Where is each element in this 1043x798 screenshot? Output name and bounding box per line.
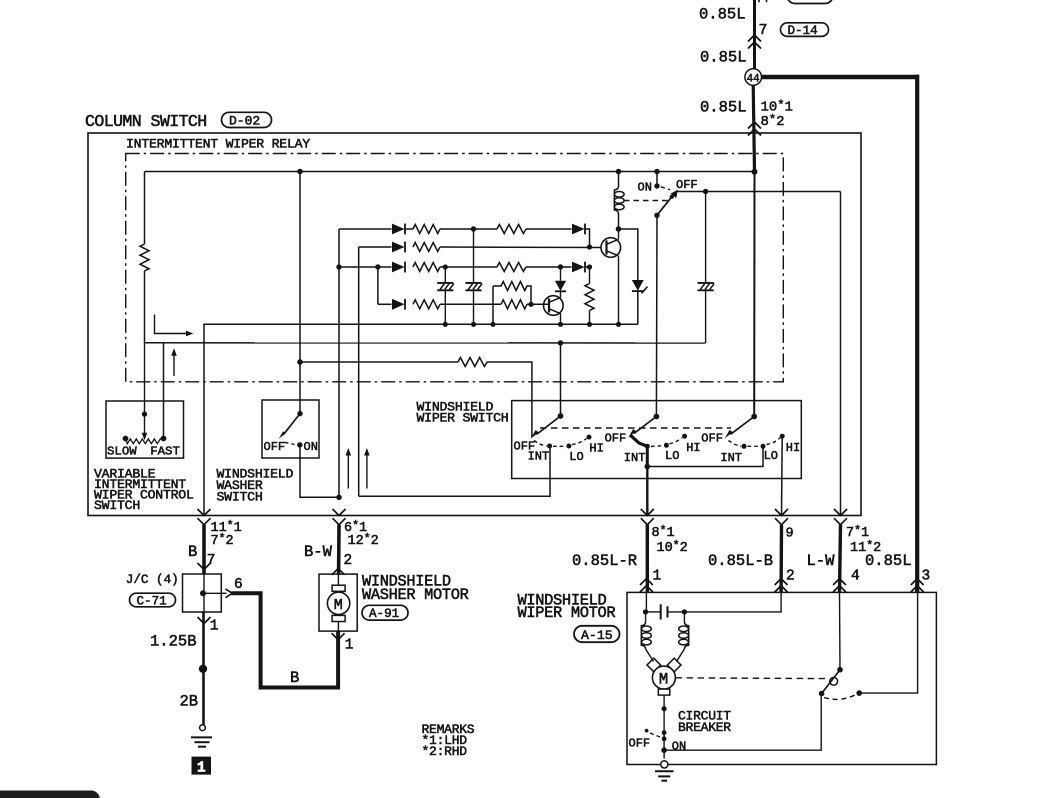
group2 contact HI [682, 434, 687, 439]
resistor (variable timing) vertical [140, 244, 149, 271]
svg-text:7: 7 [759, 22, 768, 39]
wire park to terminal 3 [859, 592, 917, 693]
svg-text:COLUMN SWITCH: COLUMN SWITCH [85, 112, 207, 131]
capacitor C2 [465, 229, 482, 324]
windshield washer switch box [262, 400, 319, 458]
svg-text:OFF: OFF [605, 431, 627, 445]
diode D5 [572, 262, 585, 273]
variable intermittent wiper control switch box [106, 401, 184, 458]
node row2 [587, 244, 592, 249]
wire [440, 228, 497, 230]
svg-text:SWITCH: SWITCH [94, 498, 140, 513]
wire LO3 link [647, 446, 763, 466]
group2 blade [634, 417, 656, 434]
node washer/matrix join [336, 495, 342, 501]
washer contact dashes [285, 442, 295, 444]
matrix feed wire (int branch) [358, 247, 360, 496]
exit chevrons wire B [198, 509, 211, 525]
group2 blade thick link to INT [631, 435, 648, 446]
left leg wire lower [144, 271, 146, 343]
svg-text:D-02: D-02 [229, 114, 260, 129]
svg-text:OFF: OFF [629, 736, 651, 750]
wire [405, 228, 413, 230]
connector stadium (cut off at top edge) [787, 0, 833, 4]
wire OFF down right side [840, 192, 842, 516]
resistor R1b [497, 225, 526, 234]
potentiometer track [126, 439, 164, 444]
wire R5 left leg to bus [492, 286, 494, 324]
relay blade lower node [654, 213, 659, 218]
wire [440, 266, 497, 268]
connector box D-02 [222, 112, 272, 128]
group1 contact INT [547, 444, 552, 449]
park switch blade with cam loop [822, 670, 840, 694]
relay coil [614, 172, 624, 230]
wire B output down [203, 324, 205, 516]
thick wire from node 44 to right [761, 75, 919, 79]
diode matrix row 1 wire [339, 228, 392, 230]
svg-text:8*2: 8*2 [761, 113, 785, 130]
svg-text:0.85L-R: 0.85L-R [572, 552, 637, 570]
svg-text:8*1: 8*1 [652, 525, 675, 541]
ground reference block 1 [192, 757, 212, 777]
label CIRCUIT BREAKER [678, 709, 731, 736]
group2 contact LO [664, 443, 669, 448]
motor M2 [647, 658, 681, 695]
node coil/Q1/zener [616, 226, 622, 232]
washer pivot node [297, 411, 302, 416]
svg-text:A-91: A-91 [369, 607, 399, 621]
connector box C-71 [130, 593, 176, 608]
diode matrix row 2 wire [359, 246, 392, 248]
washer motor box [319, 574, 357, 631]
washer switch blade [284, 414, 301, 435]
svg-text:B: B [188, 543, 197, 561]
coil-blade dashed link [624, 200, 668, 202]
mechanical link dashed [540, 427, 731, 429]
park contact dashes [824, 695, 856, 700]
wire int link from matrix to INT1 [359, 446, 550, 496]
svg-text:1: 1 [197, 760, 206, 776]
svg-text:INT: INT [528, 449, 550, 463]
thick wire down right side to wiper motor [915, 75, 919, 593]
wire through J/C [203, 574, 205, 612]
resistor R4a [413, 300, 440, 309]
wire Q2 emitter to bus [560, 314, 562, 325]
transistor Q2 [544, 296, 564, 316]
matrix feed wire (washer branch) [338, 229, 340, 497]
wiper feed node [142, 411, 147, 416]
zener diode ZD1 [619, 229, 648, 324]
svg-text:9: 9 [786, 527, 794, 542]
svg-text:0.85L-B: 0.85L-B [708, 552, 773, 570]
svg-text:OFF: OFF [701, 431, 723, 445]
node line wire y343 [145, 342, 706, 344]
J/C node [200, 590, 206, 596]
group1 position dashes [534, 441, 547, 447]
top rail wire [145, 171, 755, 173]
wire row2 to Q1 base [440, 246, 601, 249]
svg-text:0.85L: 0.85L [865, 552, 912, 570]
svg-text:0.85L: 0.85L [699, 6, 746, 24]
wire J/C to ground [202, 612, 205, 725]
label WINDSHIELD WASHER SWITCH [217, 467, 294, 505]
rail junction node (supply) [752, 169, 758, 175]
svg-text:LO: LO [665, 449, 679, 463]
svg-text:B-W: B-W [304, 543, 333, 561]
node INT2 output [645, 464, 651, 470]
bus nodes [443, 322, 448, 327]
chevron into washer motor (up) [332, 568, 345, 574]
pot end node SLOW [123, 436, 129, 442]
park switch pivot node [837, 667, 843, 673]
node cap left [643, 609, 648, 614]
connector box A-15 [574, 626, 620, 643]
thick wires from exits to wiper motor [646, 525, 649, 593]
diode matrix row 3 wire [339, 266, 392, 268]
svg-text:44: 44 [747, 73, 760, 85]
wire HI3 down to exit [781, 436, 784, 515]
rail junction node (coil) [616, 169, 622, 175]
svg-text:LO: LO [569, 450, 583, 464]
wire 4 inside [839, 592, 842, 669]
wire node 44 down into column switch box [753, 85, 754, 171]
J/C branch arrow [203, 592, 227, 594]
ground G2 [655, 761, 674, 781]
group2 INT output wire thick [646, 446, 649, 466]
park contact left node [819, 691, 825, 697]
wire blade to wiper switch pivot 2 [655, 215, 658, 416]
resistor R4b (series to Q2 base) [501, 300, 527, 309]
svg-text:6: 6 [234, 577, 243, 593]
svg-text:*2:RHD: *2:RHD [422, 744, 468, 759]
intermittent speed wire y362 with resistor R7 [300, 358, 532, 438]
node below motor [662, 706, 667, 711]
double chevron entering box (up) [748, 122, 761, 136]
wiper adjust arrow [155, 315, 187, 334]
node row1/cap2 [471, 226, 476, 231]
group1 pivot node [558, 413, 564, 419]
column switch outer box [88, 133, 861, 516]
bottom-left nav tab [0, 791, 100, 798]
thick wire washer return loop [232, 593, 339, 687]
svg-text:INT: INT [624, 451, 646, 465]
svg-text:HI: HI [589, 442, 603, 456]
relay OFF output wire [677, 191, 841, 193]
svg-text:ON: ON [638, 181, 652, 195]
node row3 right [587, 264, 592, 269]
relay contact ON node [654, 183, 659, 188]
connector box D-14 [781, 23, 829, 38]
node row3/cap1 [443, 264, 448, 269]
svg-text:10*1: 10*1 [761, 99, 793, 116]
washer feed wire from rail [299, 172, 301, 414]
wire B thick [202, 525, 206, 574]
svg-text:WIPER MOTOR: WIPER MOTOR [518, 604, 616, 622]
svg-text:ON: ON [672, 740, 686, 754]
node row3/row4 [375, 264, 380, 269]
chevron below washer motor [332, 633, 345, 640]
svg-text:HI: HI [686, 441, 700, 455]
group2 pivot node [654, 414, 660, 420]
motor entry chevrons (double up) [640, 579, 653, 592]
resistor R5 (Q2 base pull) [493, 282, 531, 305]
relay switch blade [657, 195, 673, 216]
svg-text:ON: ON [304, 440, 318, 454]
windshield wiper switch box [512, 401, 802, 479]
svg-text:INT: INT [720, 451, 742, 465]
svg-text:LO: LO [764, 449, 778, 463]
diode D3 [392, 242, 405, 253]
svg-text:1: 1 [345, 638, 354, 654]
group3 pivot node [751, 414, 757, 420]
field coil left [641, 612, 653, 662]
wire washer ON down [300, 445, 339, 497]
diode D2 [572, 224, 585, 235]
label VARIABLE INTERMITTENT WIPER CONTROL SWITCH [94, 466, 194, 513]
svg-text:OFF: OFF [676, 178, 698, 192]
motor-park dashed mech link [676, 677, 827, 680]
resistor R6 (Q1 base pull, vertical) [585, 267, 594, 324]
svg-text:3: 3 [922, 569, 931, 585]
node row3 left [336, 264, 341, 269]
label REMARKS [422, 722, 475, 759]
node cap right [682, 609, 687, 614]
svg-text:2B: 2B [180, 693, 199, 711]
svg-text:BREAKER: BREAKER [678, 720, 731, 735]
wire 0.85L from top to node 44 [753, 0, 756, 69]
svg-text:FAST: FAST [150, 445, 180, 459]
node y343/pivot1 feed [558, 340, 563, 345]
diode D7 [392, 299, 405, 310]
exit chevrons wire L-W [834, 509, 847, 525]
group3 blade [731, 417, 755, 435]
continuation arrow up (right) [366, 452, 368, 489]
diode D6 (vertical) [555, 267, 566, 298]
wire 1 inside [645, 592, 647, 612]
chevron above J/C [198, 563, 211, 570]
group2 position dashes [651, 445, 663, 448]
cut-off digit remnants [759, 0, 767, 2]
washer ON node [297, 442, 302, 447]
wire B-W thick to washer motor [337, 525, 341, 574]
ground G1 [191, 725, 212, 747]
group1 contact LO [566, 444, 571, 449]
wiper motor box [627, 592, 936, 764]
node on blade [670, 195, 674, 199]
svg-text:4: 4 [851, 569, 860, 585]
svg-text:WASHER MOTOR: WASHER MOTOR [362, 586, 469, 604]
svg-text:0.85L: 0.85L [700, 49, 747, 67]
wire motor to breaker [663, 695, 665, 758]
wire INT2 down to exit [646, 467, 648, 516]
exit chevrons wire INT2 [641, 509, 654, 525]
rail junction node (relay contact) [654, 169, 660, 175]
left leg wire upper [144, 172, 146, 245]
svg-text:7*2: 7*2 [211, 533, 234, 549]
node 44 [745, 69, 762, 86]
svg-text:M: M [659, 670, 668, 688]
diode matrix row 4 wire [378, 303, 392, 305]
node row3/diode D6 [558, 264, 563, 269]
breaker OFF dot and dash [645, 729, 649, 733]
svg-text:A-15: A-15 [581, 628, 613, 643]
pot end node FAST [161, 436, 167, 442]
resistor R3a [413, 263, 440, 272]
wire row4 [440, 303, 501, 305]
exit chevrons wire 9 [775, 509, 788, 525]
diode D1 [392, 224, 405, 235]
wire row3 to row4 drop [377, 267, 379, 304]
wire [526, 228, 572, 230]
svg-text:OFF: OFF [264, 440, 286, 454]
park contact right node [856, 690, 862, 696]
svg-text:0.85L: 0.85L [700, 99, 747, 117]
resistor R3b [497, 263, 526, 272]
svg-text:7*1: 7*1 [846, 525, 869, 541]
chevron below J/C [198, 617, 211, 624]
continuation arrow up (left) [347, 452, 349, 489]
node OFF/cap3 [703, 189, 708, 194]
group3 contact HI [780, 434, 785, 439]
label WINDSHIELD WIPER MOTOR [518, 591, 616, 622]
group3 contact INT [742, 444, 747, 449]
label WINDSHIELD WASHER MOTOR [362, 572, 469, 604]
svg-text:WIPER SWITCH: WIPER SWITCH [417, 411, 509, 426]
breaker return wire [664, 694, 821, 751]
group3 contact LO [761, 444, 766, 449]
intermittent wiper relay dash-dot box [126, 154, 784, 382]
svg-text:SWITCH: SWITCH [217, 489, 263, 504]
wire Q1 emitter to bus [618, 256, 620, 325]
group2 contact INT [645, 444, 650, 449]
exit chevrons wire B-W [333, 509, 346, 525]
relay contact dashes [661, 187, 670, 190]
svg-text:SLOW: SLOW [107, 445, 137, 459]
svg-text:INTERMITTENT WIPER RELAY: INTERMITTENT WIPER RELAY [126, 137, 310, 152]
svg-text:1: 1 [653, 569, 662, 585]
resistor R1a [413, 225, 440, 234]
capacitor C3 [698, 192, 715, 344]
wire row1 corner down [585, 229, 590, 247]
wire [526, 266, 572, 268]
svg-text:2: 2 [344, 553, 353, 569]
relay contact ON wire [656, 172, 658, 187]
wire pivot1 feed [560, 343, 562, 416]
ground bus wire [204, 323, 638, 326]
diode D4 [392, 262, 405, 273]
junction box J/C [183, 574, 222, 612]
group1 contact HI [587, 435, 592, 440]
svg-text:M: M [334, 597, 343, 614]
svg-text:D-14: D-14 [788, 24, 818, 38]
svg-text:1: 1 [210, 619, 219, 635]
capacitor C1 [437, 267, 454, 324]
svg-text:C-71: C-71 [137, 595, 167, 609]
resistor R2 [413, 243, 440, 252]
supply wire inside box down to wiper switch pivot 3 [753, 172, 755, 417]
connector box A-91 [362, 605, 408, 621]
group3 position dashes [729, 441, 742, 447]
node Q2 base [528, 302, 533, 307]
svg-text:HI: HI [786, 441, 800, 455]
wire to Q2 base [527, 303, 549, 305]
washer motor M1 [327, 574, 349, 631]
double chevron continuation arrow (up) [748, 35, 761, 49]
svg-text:L-W: L-W [807, 552, 836, 570]
node y362 washer feed [297, 359, 303, 365]
wire Q1 collector [618, 229, 620, 240]
group1 blade [537, 416, 561, 435]
svg-text:1.25B: 1.25B [150, 633, 197, 651]
svg-text:12*2: 12*2 [348, 533, 379, 549]
label WINDSHIELD WIPER SWITCH [417, 400, 509, 426]
transistor Q1 [601, 238, 621, 258]
wire FAST branch [163, 343, 165, 439]
splice node [199, 665, 207, 673]
svg-text:10*2: 10*2 [657, 540, 688, 556]
svg-text:2: 2 [786, 569, 795, 585]
wire [585, 266, 590, 268]
field coil right [677, 612, 689, 662]
rail junction node [297, 169, 303, 175]
svg-text:B: B [290, 669, 299, 687]
wire 2 inside [684, 592, 781, 612]
continuation arrow up (variable switch) [173, 352, 175, 376]
svg-text:J/C (4): J/C (4) [126, 573, 179, 587]
wiper arrow onto pot [144, 343, 146, 434]
circuit breaker contacts [662, 730, 667, 735]
capacitor C4 [646, 604, 685, 619]
